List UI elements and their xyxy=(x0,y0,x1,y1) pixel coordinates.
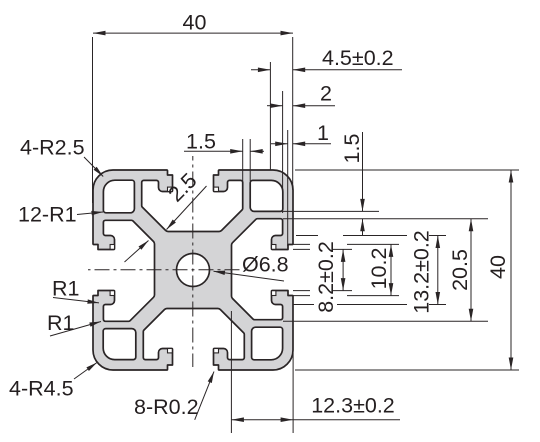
svg-text:10.2: 10.2 xyxy=(367,248,391,290)
anti-slip notch, left slot bottom lip xyxy=(110,291,114,296)
ext 8.2 top xyxy=(293,248,310,250)
aluminium extrusion profile body xyxy=(93,170,293,370)
svg-text:13.2±0.2: 13.2±0.2 xyxy=(410,230,434,314)
svg-text:2: 2 xyxy=(320,82,332,106)
leader to slot-arm fillet R1 xyxy=(125,241,149,263)
anti-slip notch, bottom slot left lip xyxy=(168,349,173,353)
ext 10.2 top xyxy=(293,243,310,245)
svg-text:1.5: 1.5 xyxy=(186,130,216,154)
ext bottom face to 40 xyxy=(295,369,519,371)
svg-text:4.5±0.2: 4.5±0.2 xyxy=(322,46,394,70)
anti-slip notch, left slot top lip xyxy=(110,245,114,250)
svg-text:8.2±0.2: 8.2±0.2 xyxy=(314,241,338,313)
dim 4.5±0.2 xyxy=(251,69,270,71)
svg-text:1: 1 xyxy=(317,121,329,145)
dim 20.5 xyxy=(470,219,472,321)
corner screw-channel cavity top-right xyxy=(250,180,283,211)
corner screw-channel cavity bottom-left xyxy=(103,329,136,360)
ext 1 line xyxy=(287,130,289,246)
leader Ø6.8 xyxy=(214,271,285,281)
ext 20.5 bottom xyxy=(283,320,488,322)
ext 12.3 right xyxy=(292,353,294,433)
horizontal centerline xyxy=(88,269,240,271)
dim 2 xyxy=(267,105,283,107)
svg-text:Ø6.8: Ø6.8 xyxy=(242,253,289,277)
ext 2 line xyxy=(282,91,284,213)
dim 12.3±0.2 xyxy=(231,419,293,421)
svg-text:R1: R1 xyxy=(52,277,79,301)
corner screw-channel cavity top-left xyxy=(103,180,134,213)
dim 10.2 xyxy=(390,244,392,295)
ext 12.3 left xyxy=(230,311,232,433)
svg-text:4-R2.5: 4-R2.5 xyxy=(20,136,85,160)
leader R1 upper xyxy=(53,298,99,303)
ext 8.2 bottom xyxy=(293,290,310,292)
corner screw-channel cavity bottom-right xyxy=(252,327,283,360)
anti-slip notch, right slot top lip xyxy=(272,245,276,250)
ext 13.2 bottom xyxy=(293,304,314,306)
svg-text:20.5: 20.5 xyxy=(448,249,472,291)
dim 13.2±0.2 xyxy=(437,236,439,305)
svg-text:8-R0.2: 8-R0.2 xyxy=(134,395,199,419)
svg-text:12-R1: 12-R1 xyxy=(18,203,77,227)
ext 1.5v top xyxy=(283,210,379,212)
leader 4-R4.5 xyxy=(74,363,97,380)
leader 8-R0.2 xyxy=(195,372,214,420)
dim 1.5 vertical (lip thickness) xyxy=(362,132,364,211)
ext 10.2 bottom xyxy=(293,295,310,297)
leader 4-R2.5 xyxy=(84,157,103,177)
dim 40 right xyxy=(510,170,512,370)
ext 40-top left xyxy=(92,37,94,203)
anti-slip notch, bottom slot right lip xyxy=(214,349,219,353)
leader 12-R1 xyxy=(77,212,103,215)
svg-text:40: 40 xyxy=(486,255,510,279)
dim 1.5 horizontal (slot web width) xyxy=(184,150,243,152)
ext 20.5 top xyxy=(283,218,488,220)
ext 1.5 left xyxy=(242,139,244,181)
svg-text:R1: R1 xyxy=(47,311,74,335)
anti-slip notch, right slot bottom lip xyxy=(272,291,276,296)
leader 2.5 xyxy=(167,186,207,230)
ext 13.2 top xyxy=(296,235,318,237)
svg-text:1.5: 1.5 xyxy=(340,134,364,164)
svg-text:40: 40 xyxy=(183,11,207,35)
svg-text:12.3±0.2: 12.3±0.2 xyxy=(311,394,395,418)
ext shared right edge xyxy=(292,37,294,190)
ext top face to 40 xyxy=(295,169,519,171)
svg-text:4-R4.5: 4-R4.5 xyxy=(9,377,74,401)
leader R1 lower xyxy=(50,322,101,337)
anti-slip notch, top slot right lip xyxy=(214,187,219,191)
center hole Ø6.8 xyxy=(177,254,210,287)
dim 40 top xyxy=(93,32,293,34)
ext 1.5 right xyxy=(249,139,251,181)
vertical centerline xyxy=(192,156,194,367)
dim 1 xyxy=(271,143,288,145)
ext 4.5 line xyxy=(269,62,271,170)
dim 8.2±0.2 xyxy=(342,249,344,290)
anti-slip notch, top slot left lip xyxy=(168,187,173,191)
